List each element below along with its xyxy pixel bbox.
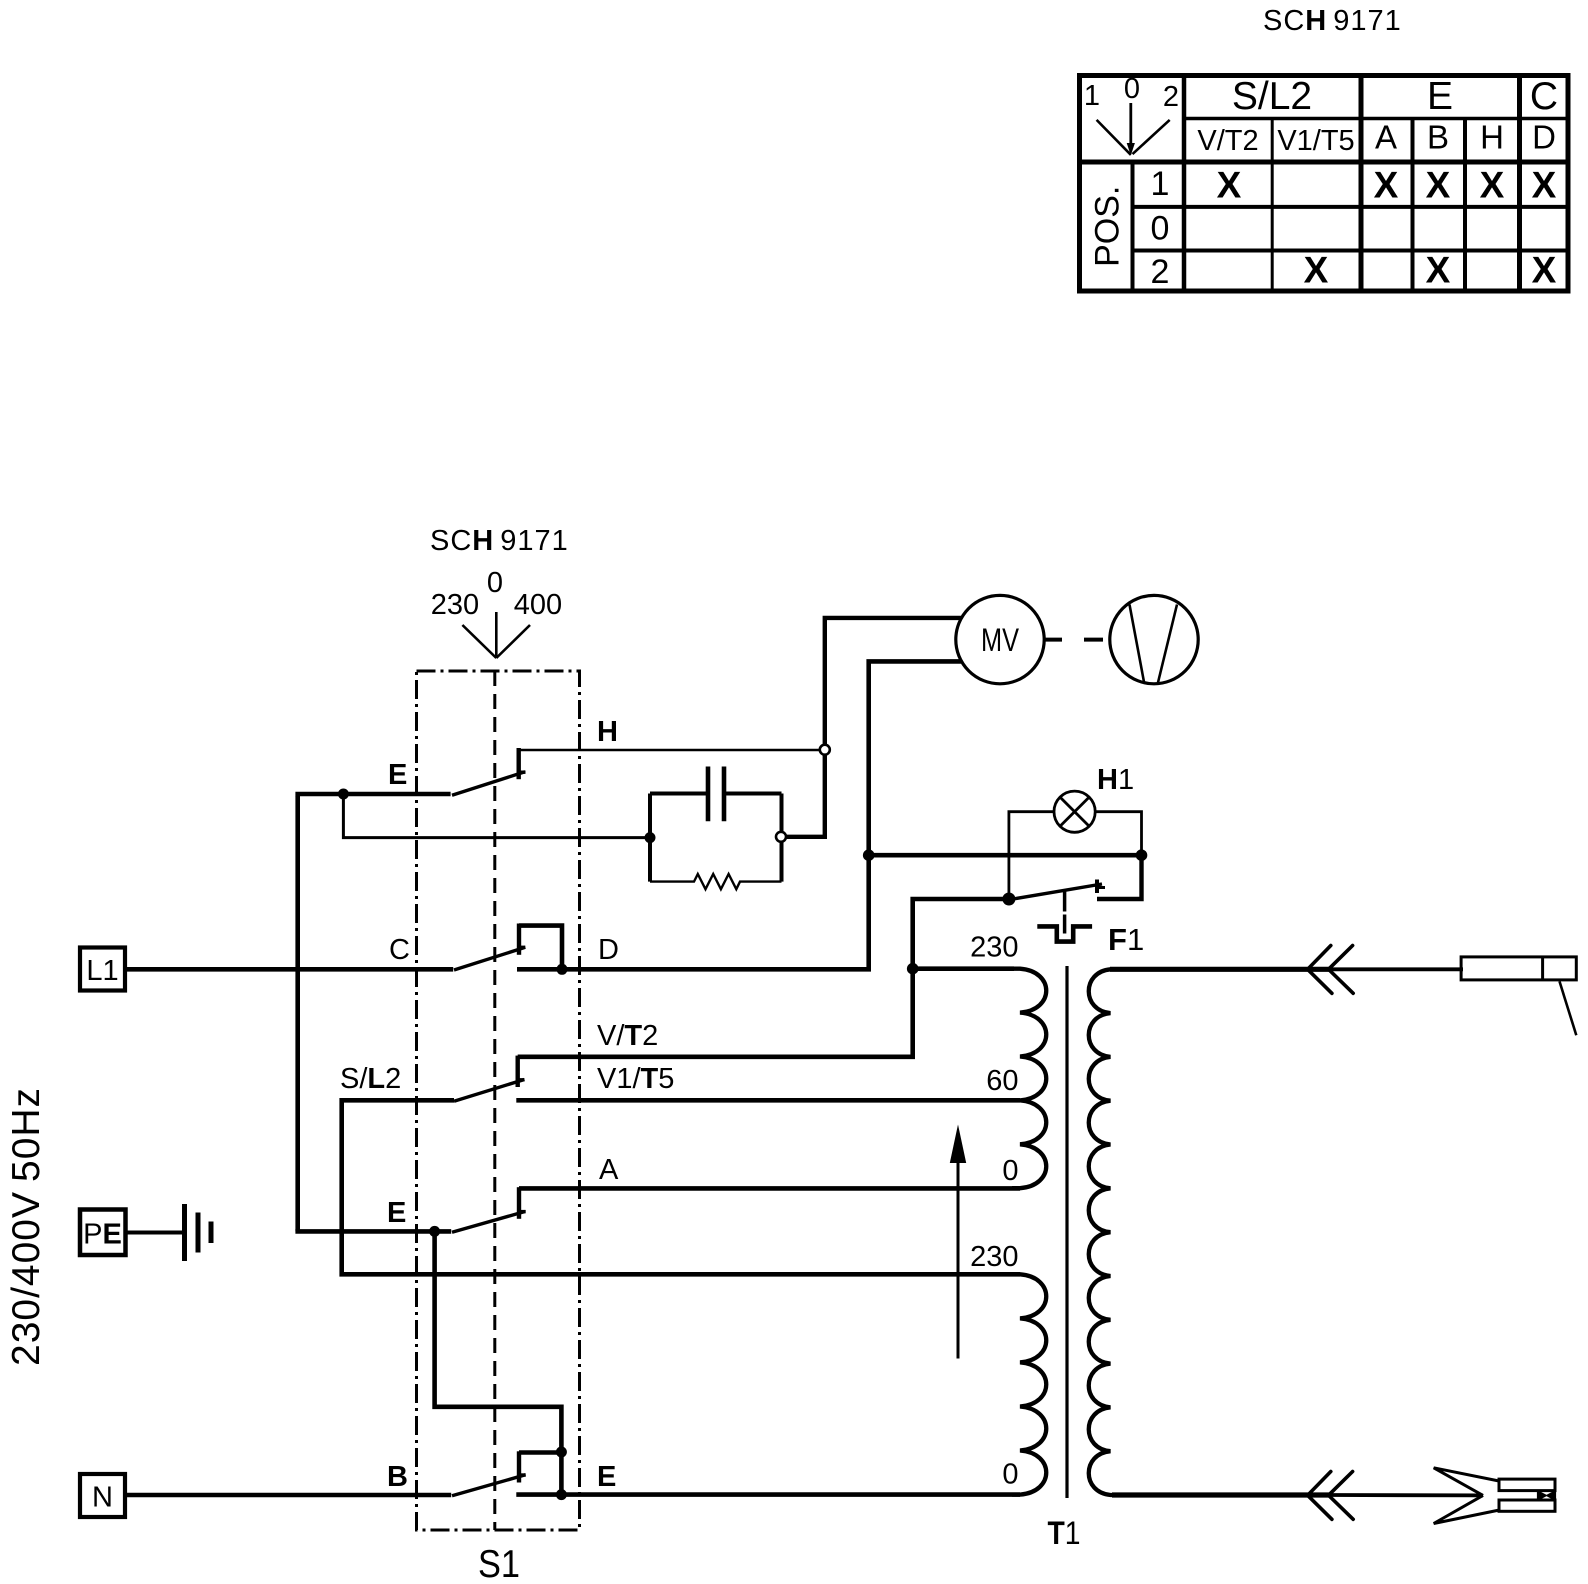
transformer T1 primary lower winding <box>1012 1274 1046 1494</box>
capacitor C plates <box>708 767 724 822</box>
svg-text:B: B <box>387 1461 408 1493</box>
svg-text:1: 1 <box>1084 80 1100 112</box>
node E lower junction <box>429 1226 440 1237</box>
svg-text:SCH9171: SCH9171 <box>430 525 569 557</box>
svg-text:D: D <box>598 934 619 966</box>
switch F1 blade <box>1009 884 1102 900</box>
svg-text:E: E <box>597 1461 616 1493</box>
wire E lower junction down to B-E contact <box>435 1231 562 1494</box>
node E top junction <box>338 789 349 800</box>
transformer T1 core <box>1065 966 1068 1498</box>
svg-text:0: 0 <box>1002 1459 1018 1491</box>
node RC left terminal <box>645 832 656 843</box>
table grid lines <box>1077 75 1568 291</box>
svg-text:A: A <box>1375 119 1397 156</box>
work clamp <box>1434 1468 1556 1524</box>
svg-text:1: 1 <box>1151 165 1170 203</box>
wire secondary bottom output <box>1112 1492 1332 1497</box>
wire E junction to RC network <box>343 794 650 838</box>
svg-text:V1/T5: V1/T5 <box>1277 125 1354 157</box>
wire secondary top output <box>1110 967 1332 972</box>
electrode holder <box>1461 957 1576 1035</box>
svg-text:S1: S1 <box>478 1543 520 1584</box>
table title SCH 9171 <box>1263 5 1402 37</box>
wire H1 right leg <box>1096 812 1141 856</box>
wire top output to electrode holder <box>1330 967 1463 971</box>
svg-text:PE: PE <box>83 1219 122 1251</box>
svg-text:H1: H1 <box>1097 764 1134 796</box>
svg-text:X: X <box>1426 165 1451 206</box>
fuse F1 actuator (dashed) <box>1063 891 1067 934</box>
svg-text:C: C <box>1530 75 1558 118</box>
svg-text:230: 230 <box>970 1241 1018 1273</box>
terminal L1 <box>80 948 125 991</box>
svg-text:V/T2: V/T2 <box>597 1020 658 1052</box>
switch contact E-A blade <box>452 1212 525 1233</box>
switch F1 fixed contact <box>1097 880 1105 894</box>
svg-text:0: 0 <box>1124 73 1140 105</box>
svg-text:H: H <box>1480 119 1504 156</box>
svg-text:X: X <box>1374 165 1399 206</box>
wire V/T2 to F1 pole <box>518 966 913 1057</box>
svg-text:V/T2: V/T2 <box>1197 125 1258 157</box>
node H1 right leg junction <box>1136 849 1148 861</box>
svg-text:230: 230 <box>970 932 1018 964</box>
transformer T1 secondary winding <box>1089 969 1119 1495</box>
wire MV-H1 bus <box>869 853 1142 858</box>
wire C-D contact hook <box>519 926 562 970</box>
svg-text:230: 230 <box>431 589 479 621</box>
node MV-H1 bus junction <box>863 849 875 861</box>
lamp H1 <box>1054 791 1095 832</box>
svg-text:X: X <box>1532 250 1557 291</box>
chevron top output <box>1308 946 1354 994</box>
table frame <box>1080 76 1569 292</box>
wire A to upper 0 tap <box>519 1186 1020 1191</box>
chevron bottom output <box>1308 1472 1354 1520</box>
switch contact C-D fixed contact <box>519 924 525 955</box>
svg-text:X: X <box>1304 250 1329 291</box>
node B-E hook junction <box>556 1447 567 1458</box>
switch contact B-E blade <box>452 1475 526 1496</box>
svg-text:230/400V50Hz: 230/400V50Hz <box>5 1087 48 1366</box>
ground (earth) symbol <box>185 1204 212 1261</box>
svg-text:V1/T5: V1/T5 <box>597 1063 674 1095</box>
wire L1 to C pole <box>125 967 453 972</box>
wire H to MV branch <box>519 749 826 751</box>
switch S1 boundary box (dash-dot) <box>417 671 580 1530</box>
svg-text:60: 60 <box>986 1065 1018 1097</box>
fuse F1 thermal element <box>1037 926 1092 941</box>
wire E contact to primary 0 tap <box>516 1492 1020 1497</box>
svg-text:X: X <box>1532 165 1557 206</box>
svg-text:C: C <box>389 934 410 966</box>
svg-text:B: B <box>1427 119 1449 156</box>
node H wire to MV feed junction (ring) <box>820 745 830 755</box>
node RC right terminal (ring) <box>776 832 786 842</box>
svg-text:A: A <box>599 1154 619 1186</box>
svg-text:E: E <box>1427 75 1453 118</box>
node N-E junction <box>556 1489 567 1500</box>
svg-text:0: 0 <box>1151 210 1170 248</box>
switch contact C-D blade <box>454 947 525 970</box>
wire E pole (top) <box>295 792 450 797</box>
wire F1 pole from 230 tap <box>913 899 1009 966</box>
svg-text:X: X <box>1480 165 1505 206</box>
node F1 pole junction <box>1002 893 1015 906</box>
svg-text:D: D <box>1532 119 1556 156</box>
svg-text:SCH9171: SCH9171 <box>1263 5 1402 37</box>
table switch position symbol 1 0 2 <box>1084 73 1179 156</box>
capacitor-resistor network frame <box>650 794 782 882</box>
svg-text:N: N <box>92 1482 113 1514</box>
svg-text:E: E <box>387 1197 406 1229</box>
wire MV top feed <box>781 618 961 837</box>
switch contact A fixed contact <box>519 1187 526 1219</box>
wire E bus vertical (left) <box>295 796 300 1231</box>
svg-text:2: 2 <box>1151 253 1170 291</box>
switch S1 actuator line (dashed) <box>493 671 496 1530</box>
wire H1 right leg to F1 contact <box>1097 855 1142 899</box>
switch contact S/L2 blade <box>454 1080 524 1102</box>
fan symbol <box>1110 595 1198 683</box>
svg-text:X: X <box>1217 165 1242 206</box>
svg-text:400: 400 <box>514 589 562 621</box>
node 230 tap junction <box>907 963 919 975</box>
terminal N <box>80 1474 125 1517</box>
switch contact V/T2 fixed contact <box>518 1056 525 1087</box>
terminal PE <box>80 1210 126 1256</box>
svg-text:H: H <box>597 716 618 748</box>
svg-text:S/L2: S/L2 <box>340 1063 401 1095</box>
motor MV <box>956 595 1044 683</box>
table X marks row 2 <box>1304 250 1557 291</box>
voltage arrow <box>950 1125 966 1359</box>
node D junction <box>557 964 568 975</box>
wire D to MV (bottom feed) <box>517 661 961 969</box>
wire S/L2 pole and feed to lower 230 tap <box>342 1100 1020 1274</box>
svg-text:E: E <box>388 759 407 791</box>
mechanical link MV to fan (dashed) <box>1045 638 1103 642</box>
wire E pole (lower) <box>298 1229 452 1231</box>
svg-text:MV: MV <box>981 622 1020 658</box>
wire B-E contact hook <box>519 1450 561 1455</box>
svg-text:0: 0 <box>487 567 503 599</box>
svg-text:0: 0 <box>1002 1155 1018 1187</box>
switch contact E-H fixed contact <box>519 748 526 779</box>
S1 selector arrow <box>462 612 530 658</box>
switch contact B-E fixed contact <box>519 1451 526 1482</box>
svg-text:T1: T1 <box>1048 1515 1081 1551</box>
wire 230 tap to primary <box>913 966 1014 971</box>
switch contact E-H blade <box>452 772 525 796</box>
resistor R zigzag <box>650 874 782 889</box>
transformer T1 primary upper winding <box>1012 969 1046 1188</box>
svg-text:L1: L1 <box>86 955 118 987</box>
wire N to B pole <box>125 1493 451 1498</box>
svg-text:2: 2 <box>1163 81 1179 113</box>
table X marks row 1 <box>1217 165 1557 206</box>
svg-text:S/L2: S/L2 <box>1232 75 1312 118</box>
wire PE to ground <box>125 1231 184 1235</box>
wire V1/T5 to 60 tap <box>516 1098 1020 1103</box>
svg-text:X: X <box>1426 250 1451 291</box>
wire H1 left leg <box>1009 812 1053 897</box>
svg-text:POS.: POS. <box>1089 186 1127 267</box>
svg-text:F1: F1 <box>1108 922 1144 957</box>
wire bottom output to work clamp <box>1330 1493 1483 1497</box>
